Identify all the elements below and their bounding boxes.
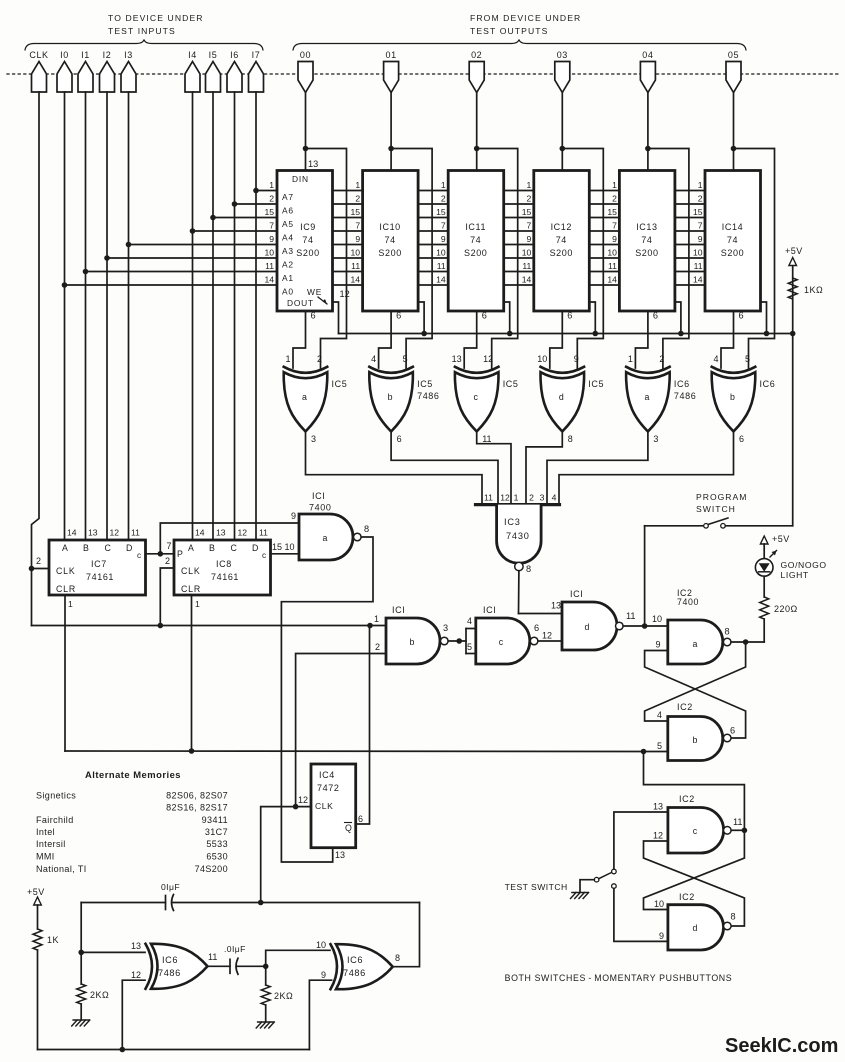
pin label 2 of IC7 CLK [36,556,41,566]
svg-text:CLK: CLK [56,566,76,576]
svg-text:13: 13 [452,354,462,364]
input connector I5 [206,50,221,92]
svg-text:1KΩ: 1KΩ [804,285,823,295]
node I4/A4 junction at address row [190,228,196,234]
wire IC11 WE pin 12 stub to WE bus [504,302,510,334]
svg-text:1: 1 [441,180,446,190]
wire bus row between IC11 and IC12 [504,284,534,286]
svg-text:DOUT: DOUT [287,298,314,308]
svg-text:13: 13 [131,941,141,951]
node junction output IC1d / program switch [642,623,648,629]
pin label output 11 of IC5 c [482,434,491,444]
node I5/A5 junction at address row [210,215,216,221]
svg-text:A5: A5 [282,219,294,229]
pin label 9 of IC14 [698,234,703,244]
wire IC1b pin 2 from oscillator/IC4 clock [296,654,386,807]
svg-text:10: 10 [316,940,326,950]
pin label 7 of IC8 P [166,541,171,551]
svg-text:TO DEVICE UNDER: TO DEVICE UNDER [108,13,204,23]
bubble IC1a output 8 [354,524,370,541]
svg-text:IC5: IC5 [417,379,433,389]
wire bus row between IC9 and IC10 [333,203,363,205]
svg-text:7486: 7486 [343,968,366,978]
svg-text:12: 12 [131,970,141,980]
wire IC13 WE pin 12 stub to WE bus [675,302,681,334]
nand IC2 a 7400 [668,620,723,664]
wire bus row between IC9 and IC10 [333,284,363,286]
svg-text:TEST SWITCH: TEST SWITCH [505,882,568,892]
nand IC3 7430 eight-input [476,505,560,564]
label GO/NOGO LIGHT [781,560,827,580]
svg-text:S200: S200 [296,248,319,258]
svg-text:9: 9 [321,970,326,980]
node I2/A2 junction at address row [104,255,110,261]
svg-text:A1: A1 [282,273,294,283]
svg-text:CLR: CLR [181,584,201,594]
pin label 6 DOUT of IC11 [482,311,487,321]
xor gate IC5 c 7486 [455,367,499,432]
svg-text:ICI: ICI [392,605,405,615]
pin label 14 of IC12 [522,275,532,285]
wire bus row between IC10 and IC11 [418,190,448,192]
svg-text:3: 3 [443,623,448,633]
svg-text:I7: I7 [252,50,261,60]
svg-text:7: 7 [612,221,617,231]
svg-text:12: 12 [238,528,248,538]
svg-text:14: 14 [351,275,361,285]
wire I2/A2 vertical from connector to counter input [106,92,108,540]
svg-text:DIN: DIN [292,174,309,184]
svg-text:8: 8 [364,524,369,534]
node I0/A0 junction at address row [62,282,68,288]
svg-text:12: 12 [500,493,510,503]
input connector I3 [121,50,136,92]
wire IC2c pin 13 to test switch contact [614,812,668,869]
node I6/A6 junction at address row [232,201,238,207]
wire reset branch down to IC2c/d latch [644,752,745,831]
svg-text:10: 10 [693,248,703,258]
svg-text:S200: S200 [635,248,658,258]
nand IC1 b 7400 [386,618,440,664]
pin label 10 of IC12 [522,248,532,258]
node WE junction IC14 [764,331,770,337]
svg-text:03: 03 [557,50,568,60]
svg-text:93411: 93411 [202,815,228,825]
label IC2 7400 above gate a [677,588,699,607]
svg-text:74161: 74161 [86,572,114,582]
pin label 11 of IC12 [522,261,531,271]
resistor 1Kohm WE pull-up [788,278,823,299]
node gate2 input node [263,964,269,970]
svg-text:14: 14 [195,528,205,538]
wire bus row between IC13 and IC14 [675,203,705,205]
pin label 2 of IC14 [698,194,703,204]
svg-text:c: c [137,551,141,560]
pin label 1 of IC1b [374,614,379,624]
svg-text:IC6: IC6 [347,955,363,965]
xor gate IC6 b 7486 [712,367,756,432]
svg-text:b: b [730,392,735,402]
svg-text:15: 15 [264,207,274,217]
power +5V oscillator [27,887,45,905]
wire IC12 WE pin 12 stub to WE bus [589,302,595,334]
wire I1/A1 vertical from connector to counter input [85,92,87,540]
svg-text:11: 11 [265,261,274,271]
wire bus row between IC10 and IC11 [418,271,448,273]
bubble IC2a output 8 [723,627,731,646]
node bias rail junction to pin 12 [120,1047,126,1053]
svg-text:7: 7 [166,541,171,551]
wire XOR IC5 d output 8 to IC3 input [526,432,562,505]
xor gate IC6 a 7486 [626,367,670,432]
svg-text:4: 4 [657,710,662,720]
wire IC2c output stub [731,829,744,831]
svg-text:11: 11 [351,261,360,271]
wire test switch lower contact to IC2d pin 9 [614,888,668,941]
wire bus row between IC11 and IC12 [504,203,534,205]
wire bus row between IC12 and IC13 [589,257,619,259]
svg-text:1: 1 [514,493,519,503]
pin label 6 DOUT of IC13 [653,311,658,321]
svg-text:11: 11 [522,261,531,271]
svg-text:13: 13 [88,528,98,538]
svg-text:5: 5 [657,741,662,751]
pin label 2 of IC11 [441,194,446,204]
wire bus row between IC12 and IC13 [589,230,619,232]
wire address row 1 to IC9 [256,190,277,192]
svg-text:I5: I5 [209,50,218,60]
input connector I6 [227,50,242,92]
pin label 15 of IC11 [436,207,446,217]
svg-text:d: d [585,622,590,632]
svg-text:11: 11 [733,817,743,827]
svg-text:6: 6 [730,726,735,736]
wire output O4 down to IC13 DIN [647,93,649,171]
svg-text:9: 9 [698,234,703,244]
svg-text:PROGRAM: PROGRAM [696,492,747,502]
label FROM DEVICE UNDER TEST OUTPUTS [470,13,581,36]
svg-text:IC13: IC13 [636,222,657,232]
svg-text:31C7: 31C7 [205,827,228,837]
svg-text:IC7: IC7 [91,559,107,569]
ground test switch [571,893,589,899]
wire bus row between IC11 and IC12 [504,190,534,192]
svg-text:5533: 5533 [206,839,228,849]
wire address row 9 to IC9 [129,244,278,246]
node IC1c tied-input junction [456,638,462,644]
svg-text:1: 1 [195,599,200,609]
wire +5V pull-up rail right column [792,266,794,526]
label IC5 7486 beside gate b [417,379,439,401]
svg-text:1: 1 [527,180,532,190]
svg-text:15: 15 [272,542,282,552]
node IC2a output junction [743,639,749,645]
svg-text:15: 15 [607,207,617,217]
pin label 8 output of second gate [395,953,400,963]
pin label 2 of IC12 [527,194,532,204]
svg-text:d: d [693,923,698,933]
bubble IC2b output 6 [723,726,735,742]
input connector I2 [100,50,115,92]
pin label 13 DIN of IC9 [308,159,318,169]
input connector I4 [185,50,200,92]
pin label 6 of IC4 [358,814,363,824]
wire gate1 output to coupling cap [208,965,231,967]
svg-text:1: 1 [698,180,703,190]
pin label 15 of IC10 [351,207,361,217]
svg-text:2: 2 [612,194,617,204]
label DIN inside IC9 [292,174,309,184]
label IC2 above gate c [679,794,695,804]
wire bus row between IC9 and IC10 [333,217,363,219]
svg-text:12: 12 [653,831,663,841]
pin label 12 of IC1d [542,631,552,641]
svg-text:Q: Q [345,823,352,833]
output connector 02 [469,50,484,93]
svg-text:National, TI: National, TI [36,864,87,874]
svg-text:CLK: CLK [29,50,48,60]
node O3 junction [560,146,566,152]
node I7/A7 junction at address row [253,188,259,194]
pin label 13 of first osc gate [131,941,141,951]
svg-text:IC2: IC2 [677,702,693,712]
label DOUT inside IC9 [287,298,314,308]
wire oscillator feedback line right segment [173,902,420,904]
svg-text:5: 5 [403,354,408,364]
node CLK junction at IC7 [29,566,35,572]
wire IC8 CLK pin 2 branch [160,568,174,626]
label Alternate Memories heading [85,769,181,780]
svg-text:15: 15 [693,207,703,217]
wire O3 feed-around to XOR input [562,149,603,369]
pin label 9 of IC12 [527,234,532,244]
svg-text:c: c [473,392,478,402]
output connector 04 [640,50,655,93]
bubble IC1d output 11 [616,611,636,630]
svg-text:A: A [188,543,194,553]
pin label 10 of IC2a [652,614,662,624]
ground first 2K [72,1020,90,1026]
svg-text:6: 6 [358,814,363,824]
wire 2K to ground [80,1004,82,1019]
pin labels IC7 top 14 13 12 11 [67,528,140,538]
svg-text:2: 2 [529,493,534,503]
wire 1K down to bias rail [37,950,39,1050]
pin label 6 DOUT of IC14 [739,311,744,321]
svg-text:14: 14 [607,275,617,285]
pin label 10 of IC1a [285,542,295,552]
svg-text:220Ω: 220Ω [774,604,798,614]
svg-text:A7: A7 [282,192,294,202]
wire XOR IC6 a output 3 to IC3 input [547,432,648,505]
svg-text:01: 01 [385,50,396,60]
node O5 junction [731,146,737,152]
svg-text:7400: 7400 [309,503,331,513]
svg-text:15: 15 [436,207,446,217]
svg-text:13: 13 [653,802,663,812]
svg-text:+5V: +5V [785,246,803,256]
svg-text:12: 12 [298,795,308,805]
svg-text:A2: A2 [282,260,294,270]
svg-text:2KΩ: 2KΩ [274,991,293,1001]
svg-text:5: 5 [467,642,472,652]
svg-text:13: 13 [308,159,318,169]
node CLK junction at IC1b input 1 [367,623,373,629]
wire bus row between IC13 and IC14 [675,284,705,286]
pin labels IC3 inputs 11 12 1 2 3 4 [484,493,557,503]
wire IC8 CLR pin 1 down to reset line [191,595,193,751]
svg-text:2: 2 [441,194,446,204]
wire IC3 output 8 to IC1d pin 13 [519,571,563,614]
pin labels of IC9 left side [264,180,274,285]
svg-text:7486: 7486 [417,391,439,401]
svg-text:74: 74 [727,235,738,245]
svg-text:8: 8 [568,434,573,444]
node IC8 CLR junction on reset line [189,748,195,754]
memory chip IC9 74S200 [277,171,333,312]
label IC1 above gate b [392,605,405,615]
resistor 2Kohm first [77,984,110,1004]
wire IC4 CLK pin 12 from oscillator [261,807,311,903]
bubble IC1c output 6 [530,623,539,645]
svg-text:IC5: IC5 [332,379,348,389]
wire O5 feed-around to XOR input [734,149,775,369]
svg-text:Fairchild: Fairchild [36,815,74,825]
pin label 14 of IC14 [693,275,703,285]
memory chip IC13 74S200 [619,171,675,312]
svg-text:C: C [231,543,238,553]
svg-text:12: 12 [340,289,350,299]
svg-text:S200: S200 [464,248,487,258]
wire output O3 down to IC12 DIN [561,93,563,171]
wire bus row between IC13 and IC14 [675,190,705,192]
wire node to IC6 pin 13 [81,951,145,953]
svg-text:4: 4 [552,493,557,503]
svg-text:74: 74 [470,235,481,245]
wire I5/A5 vertical from connector to counter input [212,92,214,540]
capacitor 01uF coupling [224,944,246,974]
pin labels inputs 1,2 of IC6 a [628,354,665,364]
svg-text:Signetics: Signetics [36,791,76,801]
pin label 2 of IC10 [355,194,360,204]
svg-text:10: 10 [351,248,361,258]
pin label 4 of IC1c [467,616,472,626]
wire bus row between IC9 and IC10 [333,257,363,259]
svg-text:15: 15 [351,207,361,217]
svg-text:b: b [388,392,393,402]
svg-text:MMI: MMI [36,852,55,862]
pin label 2 of IC1b [375,642,380,652]
svg-text:10: 10 [264,248,274,258]
wire IC14 WE pin 12 stub to WE bus [761,302,767,334]
resistor 1K oscillator pull-up [33,929,59,950]
wire CLK line from junction to IC1b pin 1 [32,625,387,627]
svg-text:1: 1 [612,180,617,190]
svg-text:7486: 7486 [158,968,181,978]
node I3/A3 junction at address row [126,242,132,248]
power +5V LED supply [760,534,789,544]
wire bus row between IC12 and IC13 [589,203,619,205]
label IC1 above gate c [483,605,496,615]
svg-text:02: 02 [471,50,482,60]
label IC5 beside gate c [503,379,519,389]
wire IC1d junction up to program switch [644,526,646,626]
wire bus row between IC12 and IC13 [589,244,619,246]
wire node down to 2K [80,952,82,984]
ground second 2K [256,1022,274,1028]
svg-text:a: a [302,392,307,402]
nand IC1 d 7400 [562,602,617,650]
pin label 5 of IC1c [467,642,472,652]
svg-text:82S16, 82S17: 82S16, 82S17 [166,803,228,813]
wire output O1 down to IC10 DIN [390,93,392,171]
svg-text:8: 8 [731,912,736,922]
wire cross-couple IC2b out to IC2a pin 9 [645,651,746,739]
label BOTH SWITCHES - MOMENTARY PUSHBUTTONS [505,973,733,983]
svg-text:9: 9 [527,234,532,244]
wire IC9 DOUT pin 6 to XOR input [293,311,306,368]
wire node up into IC6 pin 10 [266,950,330,966]
svg-text:FROM DEVICE UNDER: FROM DEVICE UNDER [470,13,581,23]
wire address row 2 to IC9 [235,203,278,205]
pin label 14 of IC10 [351,275,361,285]
nand IC2 b 7400 [668,717,723,761]
node WE junction IC10 [421,331,427,337]
svg-text:2: 2 [355,194,360,204]
pin label 13 of IC4 [335,850,345,860]
svg-text:LIGHT: LIGHT [781,570,809,580]
wire output O5 down to IC14 DIN [733,93,735,171]
switch PROGRAM SWITCH [704,518,728,528]
svg-text:I3: I3 [124,50,133,60]
wire XOR IC6 b output 6 to IC3 input [559,432,734,505]
node CLK line junction below IC8 [158,623,164,629]
pin label 1 of IC7 CLR [68,599,73,609]
svg-text:I4: I4 [188,50,197,60]
svg-text:7: 7 [269,221,274,231]
svg-text:82S06, 82S07: 82S06, 82S07 [166,791,228,801]
pin label 11 of IC14 [694,261,703,271]
svg-text:10: 10 [607,248,617,258]
wire XOR IC5 b output 6 to IC3 input [391,432,498,505]
svg-text:I0: I0 [60,50,69,60]
pin label 2 of IC13 [612,194,617,204]
svg-text:10: 10 [436,248,446,258]
wire bus row between IC11 and IC12 [504,217,534,219]
pin labels inputs 4,5 of IC5 b [371,354,408,364]
svg-text:I6: I6 [230,50,239,60]
svg-text:9: 9 [574,354,579,364]
wire I0/A0 vertical from connector to counter input [64,92,66,540]
wire I6/A6 vertical from connector to counter input [234,92,236,540]
wire bus row between IC9 and IC10 [333,271,363,273]
wire bias to IC6 pin 12 [122,980,145,1049]
svg-text:4: 4 [371,354,376,364]
svg-text:B: B [83,543,89,553]
svg-text:9: 9 [269,234,274,244]
pin label output 3 of IC6 a [653,434,658,444]
pin label 2 of IC8 CLK [165,556,170,566]
svg-text:11: 11 [259,528,268,538]
capacitor 01uF feedback [161,882,180,911]
svg-text:I2: I2 [103,50,112,60]
node I1/A1 junction at address row [83,269,89,275]
pin label 4 of IC2b [657,710,662,720]
node WE bus to 1K pull-up [790,331,796,337]
pin label 7 of IC10 [355,221,360,231]
label IC6 7486 beside gate a [674,379,696,401]
pin label output 8 of IC5 d [568,434,573,444]
